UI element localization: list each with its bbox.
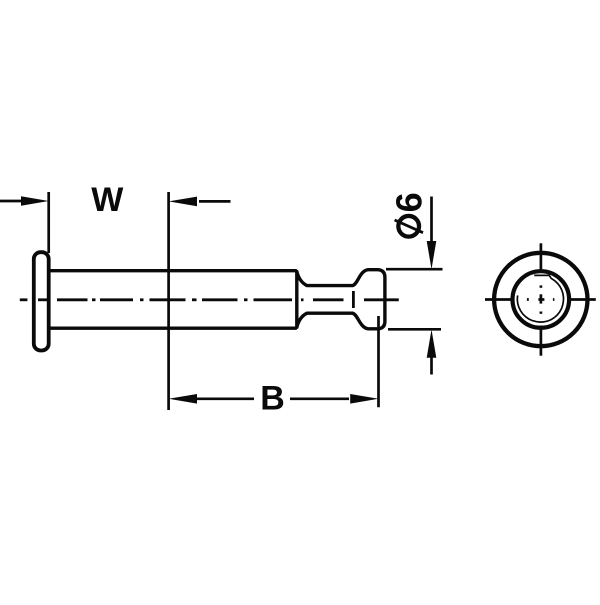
svg-text:6: 6 — [389, 192, 430, 212]
svg-text:W: W — [91, 181, 124, 219]
svg-text:B: B — [260, 380, 285, 418]
